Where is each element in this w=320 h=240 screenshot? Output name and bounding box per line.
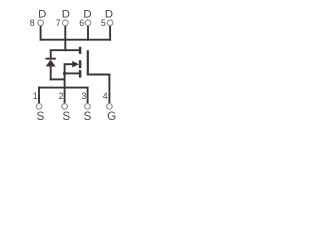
wire diode cathode [50,50,52,58]
pin 4 terminal [107,104,113,110]
wire anode horizontal [50,78,65,80]
junction dot source node [63,72,66,75]
transistor Q1 gate bar [87,50,89,75]
svg-text:8: 8 [30,18,35,28]
pin 5 terminal [107,20,113,26]
svg-text:1: 1 [33,91,38,101]
svg-text:D: D [105,8,113,20]
wire pin 4 vertical [108,75,110,104]
wire top drain bus [40,39,111,41]
transistor Q1 body channel segment [79,60,82,68]
svg-text:2: 2 [59,91,64,101]
transistor Q1 source channel segment [79,70,82,78]
transistor Q1 body arrow head [72,61,79,68]
wire bottom source bus [38,87,89,89]
svg-text:6: 6 [79,18,84,28]
diode D1 triangle [46,60,56,67]
wire pin 1 stub [38,87,40,104]
svg-text:S: S [84,110,92,123]
transistor Q1 drain channel segment [79,47,82,54]
svg-text:D: D [83,8,91,20]
wire pin 8 stub [40,26,42,41]
svg-text:D: D [38,8,46,20]
pin 3 terminal [85,104,91,110]
wire drain horizontal [50,49,79,51]
pin 2 terminal [62,104,68,110]
svg-text:5: 5 [101,18,106,28]
svg-text:S: S [37,110,45,123]
wire gate lead [88,74,111,76]
wire pin 6 stub [87,26,89,41]
wire pin 7 stub (continues to drain node) [64,26,66,51]
svg-text:D: D [62,8,70,20]
pin 7 terminal [62,20,68,26]
wire source vertical [64,63,66,103]
svg-text:G: G [107,110,116,123]
wire pin 3 stub [87,87,89,104]
pin 8 terminal [38,20,44,26]
svg-text:S: S [62,110,70,123]
svg-text:7: 7 [56,18,61,28]
diode D1 cathode bar [46,58,56,60]
wire mosfet body stub [64,63,77,65]
pin 6 terminal [85,20,91,26]
svg-text:3: 3 [81,91,86,101]
wire pin 5 stub [109,26,111,41]
svg-text:4: 4 [103,91,108,101]
wire mosfet source stub [64,72,79,74]
wire diode anode [50,66,52,80]
pin 1 terminal [36,104,42,110]
